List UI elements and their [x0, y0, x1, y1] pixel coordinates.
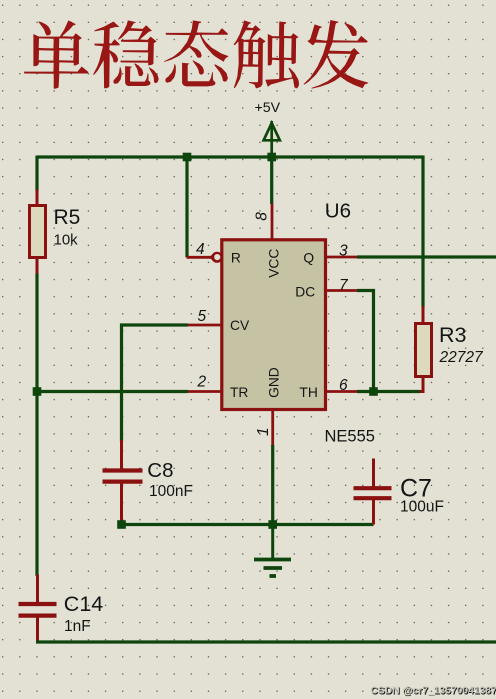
wire: +5V rail horizontal — [37, 155, 423, 158]
svg-text:U6: U6 — [325, 200, 351, 223]
resistor R5 lead top — [36, 190, 39, 207]
resistor R3 lead top — [422, 306, 425, 324]
svg-text:CV: CV — [230, 318, 250, 333]
wire: pin6 to R3 bottom — [357, 390, 420, 393]
junction: rail / pin4 riser — [183, 153, 192, 162]
svg-text:Q: Q — [303, 250, 314, 265]
wire: rail right drop to R3 — [421, 156, 424, 308]
pin 6 stub — [326, 390, 359, 393]
svg-text:3: 3 — [339, 242, 348, 259]
resistor R5 lead bottom — [36, 258, 39, 276]
svg-text:CSDN @cr7_13570041387: CSDN @cr7_13570041387 — [371, 686, 496, 697]
wire: pin5 run and drop to C8 — [122, 325, 188, 442]
svg-text:2: 2 — [197, 374, 207, 391]
capacitor C8 lead bottom — [120, 484, 123, 525]
svg-text:7: 7 — [339, 277, 349, 294]
power +5V symbol — [264, 121, 280, 157]
junction: pin1 / ground bus — [268, 520, 277, 529]
junction: rail / +5V / pin8 — [267, 153, 276, 162]
pin 1 stub — [271, 410, 274, 447]
wire: pin4 riser — [185, 156, 188, 258]
pin 7 stub — [326, 289, 359, 292]
capacitor C7 lead top — [372, 459, 375, 488]
resistor R3 lead bottom — [420, 376, 424, 392]
pin 3 stub — [326, 256, 359, 259]
svg-text:5: 5 — [198, 308, 207, 325]
wire: bottom rail to right edge — [36, 640, 496, 643]
wire: pin2 run to left vertical — [37, 390, 188, 393]
svg-text:TH: TH — [299, 385, 317, 400]
wire: pin8 drop from rail — [270, 157, 273, 204]
svg-text:GND: GND — [267, 367, 282, 398]
svg-text:6: 6 — [339, 377, 348, 394]
svg-text:TR: TR — [230, 385, 248, 400]
junction: C8 / ground bus — [117, 520, 126, 529]
capacitor C7 lead bottom — [372, 500, 375, 525]
capacitor C8 lead top — [120, 440, 123, 469]
resistor R5 body — [30, 206, 46, 258]
wire: left vertical R5 to C14 — [35, 274, 38, 577]
wire: pin1 drop to ground bus — [271, 445, 274, 525]
svg-text:10k: 10k — [54, 232, 79, 249]
svg-text:22727: 22727 — [439, 349, 484, 366]
capacitor C8 plates — [103, 471, 143, 482]
svg-text:1nF: 1nF — [64, 618, 91, 635]
svg-text:C8: C8 — [147, 459, 173, 482]
wire: pin3 to right edge — [357, 255, 496, 258]
capacitor C14 lead top — [36, 575, 39, 604]
capacitor C7 plates — [354, 488, 392, 498]
svg-text:4: 4 — [196, 241, 205, 258]
capacitor C14 lead bottom — [36, 618, 39, 643]
svg-text:C14: C14 — [64, 592, 103, 616]
IC U6 body NE555 — [222, 240, 326, 410]
resistor R3 body — [416, 324, 432, 377]
wire: pin7 to C7 branch corner — [357, 291, 374, 394]
svg-text:+5V: +5V — [255, 100, 281, 116]
svg-text:100nF: 100nF — [149, 483, 193, 500]
capacitor C14 plates — [19, 604, 57, 616]
svg-text:1: 1 — [255, 427, 272, 436]
junction: left vertical / pin2 wire — [33, 387, 42, 396]
svg-text:8: 8 — [254, 212, 271, 221]
svg-text:DC: DC — [295, 284, 315, 299]
pin 5 stub — [186, 324, 222, 327]
pin 4 stub — [187, 256, 215, 259]
svg-text:R3: R3 — [439, 323, 467, 347]
svg-text:NE555: NE555 — [325, 428, 375, 446]
svg-text:R5: R5 — [54, 206, 81, 229]
svg-text:R: R — [231, 250, 241, 265]
pin 8 stub — [271, 204, 274, 242]
IC U6 reset bubble pin4 — [210, 252, 223, 263]
ground symbol — [254, 525, 291, 577]
title text 单稳态触发 — [24, 20, 369, 89]
wire: rail left drop to R5 — [35, 156, 38, 192]
wire: ground bus — [122, 523, 374, 526]
junction: pin6 wire / pin7 branch / C7 — [369, 387, 378, 396]
pin 2 stub — [186, 390, 222, 393]
svg-text:100uF: 100uF — [400, 499, 444, 516]
svg-text:VCC: VCC — [267, 249, 282, 278]
